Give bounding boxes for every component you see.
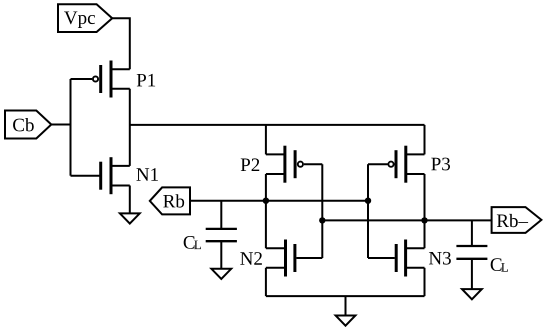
port tag Vpc <box>58 4 112 32</box>
wire node Rb- <box>322 219 492 221</box>
wire node Rb <box>190 200 368 202</box>
wire P2-N2 gate line <box>321 164 323 258</box>
label P2 <box>241 158 259 171</box>
junction dot (Rb / P3-N3 gate) <box>365 198 371 204</box>
pmos P2 <box>266 146 303 183</box>
junction dot (P2-N2 gate / Rb- wire) <box>319 217 325 223</box>
label P1 <box>137 74 155 87</box>
wire P3-N3 gate line <box>367 164 369 258</box>
wire output node rail <box>130 124 425 126</box>
label CL (right) <box>491 258 508 271</box>
port tag Rb- <box>492 207 542 233</box>
capacitor CL (right) <box>456 220 487 289</box>
junction dot (Rb / P2 drain) <box>263 198 269 204</box>
wire P1 gate lead <box>71 78 93 80</box>
wire P2 drain to N2 drain <box>265 174 267 248</box>
label N3 <box>429 252 451 265</box>
port tag Cb <box>5 111 51 139</box>
ground (N1 source) <box>120 213 140 223</box>
wire P3 drain to N3 drain <box>424 174 426 248</box>
wire bottom rail <box>266 295 425 297</box>
ground (bottom rail) <box>336 316 356 326</box>
ground (left CL) <box>211 269 231 279</box>
wire Vpc to P1 source <box>112 18 130 69</box>
wire N2 gate lead <box>296 257 322 259</box>
wire N3 gate lead <box>368 257 395 259</box>
wire N1 source to ground <box>129 186 131 214</box>
wire node P1 drain to N1 drain <box>129 89 131 166</box>
label CL (left) <box>184 236 201 249</box>
wire gate line P1-N1 <box>70 79 72 176</box>
wire Cb to gate line <box>51 124 70 126</box>
capacitor CL (left) <box>206 201 237 269</box>
wire P3 gate lead <box>368 163 388 165</box>
wire rail to P2 source <box>265 125 267 154</box>
label N1 <box>136 168 158 181</box>
label P3 <box>431 158 450 171</box>
wire P2 gate lead <box>304 163 322 165</box>
ground (right CL) <box>462 289 482 299</box>
pmos P1 <box>93 61 130 98</box>
nmos N1 <box>101 157 130 194</box>
wire N1 gate lead <box>71 175 100 177</box>
label N2 <box>240 252 262 265</box>
nmos N3 <box>396 240 424 277</box>
wire bottom rail to ground <box>345 296 347 315</box>
wire rail to P3 source <box>424 125 426 154</box>
wire N3 source to bottom rail <box>424 268 426 296</box>
nmos N2 <box>266 240 295 277</box>
junction dot (Rb- / P3 drain) <box>421 217 427 223</box>
wire N2 source to bottom rail <box>265 268 267 296</box>
port tag Rb <box>150 187 190 214</box>
pmos P3 <box>388 146 424 183</box>
